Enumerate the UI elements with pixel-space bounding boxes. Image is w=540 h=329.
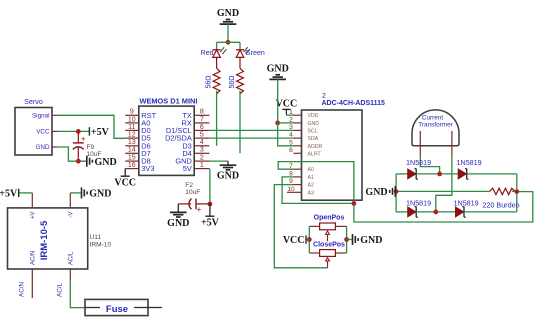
svg-text:Red: Red [201, 50, 214, 57]
svg-text:GND: GND [360, 235, 382, 246]
svg-text:GND: GND [89, 189, 111, 200]
svg-text:F9: F9 [87, 144, 95, 151]
svg-text:220 Burden: 220 Burden [482, 200, 519, 209]
svg-text:3V3: 3V3 [141, 164, 154, 173]
svg-text:Green: Green [245, 50, 265, 57]
svg-text:VCC: VCC [114, 178, 136, 189]
svg-text:GND: GND [217, 171, 239, 182]
svg-text:1: 1 [200, 162, 204, 169]
svg-text:2: 2 [200, 155, 204, 162]
svg-text:VCC: VCC [36, 129, 50, 136]
svg-text:GND: GND [308, 121, 320, 127]
svg-text:2: 2 [322, 93, 326, 100]
svg-text:GND: GND [217, 8, 239, 19]
svg-text:A2: A2 [308, 183, 314, 189]
svg-text:IRM-10-5: IRM-10-5 [39, 220, 50, 260]
svg-text:-V: -V [69, 212, 75, 218]
svg-text:VCC: VCC [283, 235, 305, 246]
svg-text:AC/L: AC/L [57, 283, 64, 297]
svg-text:8: 8 [200, 109, 204, 116]
svg-text:56Ω: 56Ω [229, 75, 236, 88]
svg-text:ALRT: ALRT [308, 151, 322, 157]
svg-text:U11: U11 [90, 234, 102, 241]
svg-text:GND: GND [95, 157, 117, 168]
svg-text:A0: A0 [308, 167, 314, 173]
svg-text:AC/L: AC/L [69, 251, 75, 265]
svg-text:Signal: Signal [32, 113, 50, 120]
svg-text:10uF: 10uF [185, 189, 200, 196]
svg-text:+: + [197, 205, 202, 214]
svg-text:56Ω: 56Ω [205, 75, 212, 88]
svg-text:7: 7 [200, 116, 204, 123]
svg-text:Transformer: Transformer [418, 122, 453, 129]
svg-text:ClosePos: ClosePos [313, 242, 345, 249]
svg-text:WEMOS D1 MINI: WEMOS D1 MINI [140, 97, 198, 106]
svg-text:1N5819: 1N5819 [457, 158, 482, 167]
svg-text:GND: GND [267, 63, 289, 74]
svg-text:A1: A1 [308, 175, 314, 181]
svg-text:6: 6 [289, 147, 293, 154]
svg-text:SCL: SCL [308, 128, 318, 134]
svg-text:1N5819: 1N5819 [406, 158, 431, 167]
svg-text:14: 14 [128, 147, 136, 154]
svg-text:GND: GND [365, 187, 387, 198]
svg-text:6: 6 [200, 124, 204, 131]
svg-text:VCC: VCC [276, 99, 298, 110]
svg-text:GND: GND [167, 218, 189, 229]
svg-text:Fuse: Fuse [106, 304, 128, 315]
svg-text:+5V: +5V [91, 127, 110, 138]
svg-text:Servo: Servo [24, 97, 43, 106]
svg-text:+5V: +5V [201, 218, 220, 229]
svg-text:+5V: +5V [0, 189, 18, 200]
svg-text:15: 15 [128, 155, 136, 162]
svg-text:11: 11 [128, 124, 135, 131]
svg-text:+V: +V [31, 212, 37, 220]
svg-text:Current: Current [422, 114, 444, 121]
svg-text:AC/N: AC/N [19, 282, 26, 297]
svg-text:SDA: SDA [308, 136, 319, 142]
svg-text:AC/N: AC/N [31, 251, 37, 265]
svg-text:OpenPos: OpenPos [314, 214, 345, 221]
svg-text:1N5819: 1N5819 [454, 199, 479, 208]
svg-text:F2: F2 [185, 182, 193, 189]
svg-text:13: 13 [128, 139, 136, 146]
svg-text:IRM-10: IRM-10 [90, 242, 112, 249]
svg-text:12: 12 [128, 132, 136, 139]
svg-text:10: 10 [128, 116, 136, 123]
svg-text:3: 3 [200, 147, 204, 154]
svg-text:+: + [81, 134, 86, 143]
svg-text:5: 5 [200, 132, 204, 139]
svg-text:16: 16 [128, 162, 136, 169]
svg-text:VDD: VDD [308, 113, 319, 119]
svg-text:GND: GND [36, 144, 50, 151]
svg-text:9: 9 [130, 109, 134, 116]
svg-text:A3: A3 [308, 190, 314, 196]
svg-text:5V: 5V [183, 164, 192, 173]
svg-text:4: 4 [200, 139, 204, 146]
svg-text:ADDR: ADDR [308, 144, 323, 150]
svg-text:ADC-4CH-ADS1115: ADC-4CH-ADS1115 [322, 100, 386, 107]
svg-text:1N5819: 1N5819 [406, 199, 431, 208]
